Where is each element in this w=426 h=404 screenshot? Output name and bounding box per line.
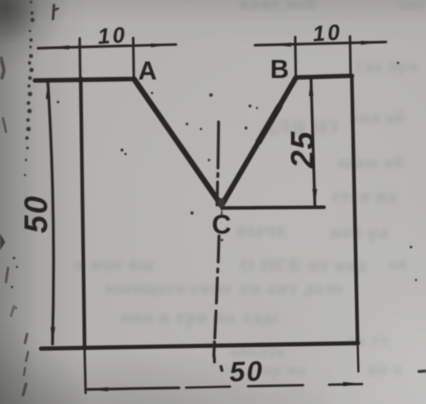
svg-text:A: A bbox=[138, 56, 157, 86]
svg-text:50: 50 bbox=[18, 195, 54, 234]
svg-text:10: 10 bbox=[312, 19, 343, 46]
svg-text:B: B bbox=[270, 54, 289, 84]
svg-text:10: 10 bbox=[97, 22, 128, 49]
svg-text:25: 25 bbox=[285, 131, 321, 170]
svg-text:50: 50 bbox=[229, 355, 264, 387]
